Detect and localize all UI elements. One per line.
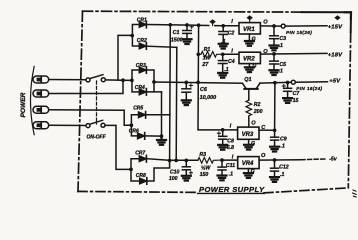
bracket CR5/CR6 [131, 115, 137, 136]
ground for VR3 [244, 139, 255, 149]
svg-text:.1: .1 [229, 171, 233, 177]
svg-text:G: G [252, 63, 256, 69]
supply diamond above VR1 [247, 15, 253, 22]
svg-text:10,000: 10,000 [200, 95, 217, 101]
wire pin4 to switch S2 [49, 124, 86, 126]
+18V output row [260, 52, 343, 58]
svg-text:PIN 16(24): PIN 16(24) [296, 86, 322, 91]
svg-text:G: G [251, 141, 255, 147]
svg-text:C10: C10 [170, 170, 180, 176]
wire R2 to VR3 top [248, 117, 250, 127]
top bus: CR1 cathode to C1/VR1 [147, 24, 199, 27]
wire pin2 riser [49, 80, 123, 93]
svg-text:150: 150 [200, 172, 209, 178]
capacitor C3 .1 [270, 26, 286, 49]
svg-text:R1: R1 [204, 47, 211, 53]
svg-text:+18V: +18V [328, 52, 343, 58]
capacitor C9 .1 [271, 130, 287, 149]
svg-text:R3: R3 [199, 152, 206, 158]
bracket CR7/CR8 [131, 159, 139, 181]
svg-text:CR1: CR1 [137, 18, 147, 24]
wire CR3 node down to CR4 wire [153, 82, 155, 92]
capacitor C10 100 [169, 160, 193, 182]
svg-text:.1: .1 [280, 172, 284, 178]
switch gang linkage (dashed) [96, 81, 98, 124]
bracket CR3/CR4 [132, 70, 139, 92]
ground for C12 [270, 177, 279, 182]
svg-text:C9: C9 [280, 137, 287, 143]
node: bracket CR1/CR2 feed [130, 34, 134, 38]
+15V output row [260, 15, 343, 35]
node: switch feed CR3/CR4 [130, 79, 134, 83]
+8V raw rail to Q1 [154, 82, 242, 83]
ground for C6 [182, 100, 191, 105]
wire R3 to VR4 input [222, 159, 238, 161]
diode CR5 [133, 106, 145, 119]
svg-text:VR2: VR2 [243, 56, 255, 62]
wire CR4 cathode to V161 [147, 91, 162, 93]
wire CR5 cathode to V170 [146, 114, 170, 116]
svg-text:POWER: POWER [20, 92, 27, 117]
diode CR1 [137, 18, 147, 28]
node V170 on -rail [168, 159, 172, 163]
ground for VR1 [245, 34, 256, 46]
ground for VR2 [245, 63, 257, 72]
node: feed CR5/CR6 [130, 123, 134, 127]
svg-text:O: O [263, 20, 268, 26]
node V198 / +8 rail [196, 81, 200, 85]
resistor R2 200 [246, 100, 263, 117]
node V198 / R1 row [196, 52, 200, 56]
svg-text:VR4: VR4 [242, 161, 254, 167]
bracket CR1/CR2 [132, 25, 138, 47]
wire V161 vertical (CR4 to CR6/ground) [161, 92, 163, 136]
connector pin 1 [33, 76, 49, 83]
regulator VR4 [232, 153, 266, 169]
svg-text:VR1: VR1 [243, 27, 255, 33]
wire V177 vertical (CR2 to -rail) [175, 47, 178, 160]
svg-text:CR3: CR3 [136, 63, 146, 69]
svg-text:.1: .1 [281, 144, 285, 150]
ground for C3 [270, 46, 279, 51]
wire switch S2 to CR7/CR8 bracket [105, 125, 131, 169]
svg-text:VR3: VR3 [242, 132, 254, 138]
svg-text:CR2: CR2 [137, 38, 147, 44]
svg-text:C4: C4 [228, 59, 235, 65]
wire CR6 cathode [145, 135, 162, 137]
svg-text:C8: C8 [227, 138, 234, 144]
ground at CR6 junction [157, 136, 166, 145]
wire VR3 sense to +5 rail [259, 83, 275, 131]
capacitor C7 15 [282, 83, 300, 105]
svg-text:R2: R2 [254, 102, 261, 108]
wire V170 vertical (bus down to -rail) [169, 25, 172, 161]
svg-text:½W: ½W [201, 164, 211, 171]
node C6 on rail [184, 81, 188, 85]
node CR3 on +8 rail [152, 80, 156, 84]
wire pin3 to CR5/CR6 bracket [49, 110, 132, 125]
svg-text:200: 200 [253, 109, 263, 115]
svg-text:ON-OFF: ON-OFF [87, 135, 107, 141]
+5V rail from Q1 emitter [260, 81, 291, 84]
wire CR2 cathode to V177 [147, 46, 177, 47]
svg-text:15: 15 [293, 98, 299, 104]
diode CR4 [135, 85, 147, 95]
svg-text:+5V: +5V [329, 78, 341, 84]
connector P1 brace [31, 66, 35, 134]
node pin2 on switch wire [121, 78, 125, 82]
ground for C1 [183, 39, 192, 44]
diode CR3 [136, 63, 147, 73]
capacitor C8 6.8 [217, 128, 234, 151]
capacitor C2 .1 [219, 24, 234, 45]
wire CR7 cathode into -rail [147, 159, 170, 161]
ground for C4 [218, 73, 227, 78]
svg-text:O: O [251, 121, 256, 127]
svg-text:C7: C7 [293, 91, 301, 97]
resistor R1 1W 27 [198, 47, 222, 68]
capacitor C4 .1 [218, 52, 234, 73]
node: feed CR7/CR8 [129, 168, 133, 172]
svg-text:O: O [261, 153, 266, 159]
capacitor C11 .1 [218, 158, 235, 177]
svg-text:C12: C12 [279, 164, 289, 170]
svg-text:CR6: CR6 [129, 129, 139, 135]
node top bus / C1 [185, 23, 189, 27]
svg-text:100: 100 [169, 176, 178, 182]
enclosure border (dash-dot) [78, 11, 351, 193]
ground for C10 [182, 176, 191, 181]
ground for C2 [219, 44, 228, 49]
diode CR7 [135, 150, 146, 162]
svg-text:C6: C6 [200, 87, 208, 93]
wire pin1 to switch S1 [49, 79, 86, 81]
svg-text:C3: C3 [279, 36, 286, 42]
diode CR2 [137, 38, 147, 49]
svg-text:C11: C11 [226, 163, 235, 169]
resistor R3 1/2W 150 [198, 152, 222, 178]
wire riser to CR1/CR2 bracket [118, 35, 132, 80]
svg-text:1W: 1W [203, 56, 212, 62]
capacitor C12 .1 [271, 160, 289, 178]
svg-text:27: 27 [201, 62, 209, 68]
wire CR8 cathode jog up to -rail [147, 161, 170, 182]
ground for VR4 [244, 169, 255, 178]
regulator VR1 [231, 19, 268, 34]
-8V raw rail (VR4 input row) with R3 [170, 159, 198, 161]
switch S2 ON-OFF (lower pole) [86, 120, 105, 127]
capacitor C5 .1 [270, 54, 286, 75]
node top bus / V170 [168, 23, 172, 27]
ground for C8 [218, 145, 227, 150]
node top bus / V198 [197, 23, 201, 27]
svg-text:+15V: +15V [328, 25, 343, 31]
connector pin 3 [33, 106, 49, 113]
-5V output row [259, 156, 338, 162]
svg-text:Q1: Q1 [244, 77, 251, 83]
connector pin 2 [33, 90, 49, 97]
wire R1 to VR2 input [223, 53, 239, 55]
ground for C9 [270, 147, 279, 152]
regulator VR3 [230, 121, 267, 140]
svg-text:PIN 15(26): PIN 15(26) [286, 30, 312, 35]
capacitor C6 10,000 [182, 82, 216, 101]
svg-text:C5: C5 [279, 62, 286, 68]
node CR6/V161 junction [160, 134, 164, 138]
regulator VR2 [231, 49, 268, 64]
ground for C11 [218, 176, 227, 181]
capacitor C1 1500 [171, 25, 194, 43]
svg-text:CR5: CR5 [133, 106, 143, 112]
ground for C7 [283, 98, 292, 103]
svg-text:POWER SUPPLY: POWER SUPPLY [199, 185, 265, 194]
svg-text:G: G [252, 37, 256, 43]
wire V198 vertical (bus to R1 row, +8 rail, VR3 input) [198, 25, 238, 130]
svg-text:G: G [251, 169, 255, 175]
node V177 on -rail [174, 159, 178, 163]
ground for C5 [270, 70, 279, 75]
node VR3 sense on +5 rail [273, 81, 277, 85]
dashed bus segment to VR1 with supply diamond [201, 19, 221, 25]
svg-text:CR8: CR8 [136, 173, 146, 179]
svg-text:C2: C2 [228, 31, 235, 37]
switch S1 (upper pole) [86, 75, 105, 82]
wire CR3 cathode jog [147, 70, 154, 82]
transistor Q1 [242, 77, 260, 100]
svg-text:1500: 1500 [171, 37, 183, 43]
svg-text:CR4: CR4 [135, 85, 145, 91]
page mark bottom right [353, 190, 357, 197]
POWER SUPPLY title [198, 185, 265, 194]
node C7 on +5 rail [286, 81, 290, 85]
wire C2 junction to VR1 input [221, 25, 239, 27]
svg-text:CR7: CR7 [135, 150, 145, 156]
node C9 junction [273, 128, 277, 132]
svg-text:C1: C1 [173, 30, 180, 36]
connector pin 4 [33, 122, 49, 129]
wire switch S1 to CR3/CR4 bracket [105, 79, 131, 82]
+5V output terminal [291, 78, 341, 91]
diode CR6 [129, 129, 145, 140]
node C10 on -rail [184, 159, 188, 163]
diode CR8 [136, 173, 147, 184]
svg-text:-5v: -5v [329, 156, 338, 162]
